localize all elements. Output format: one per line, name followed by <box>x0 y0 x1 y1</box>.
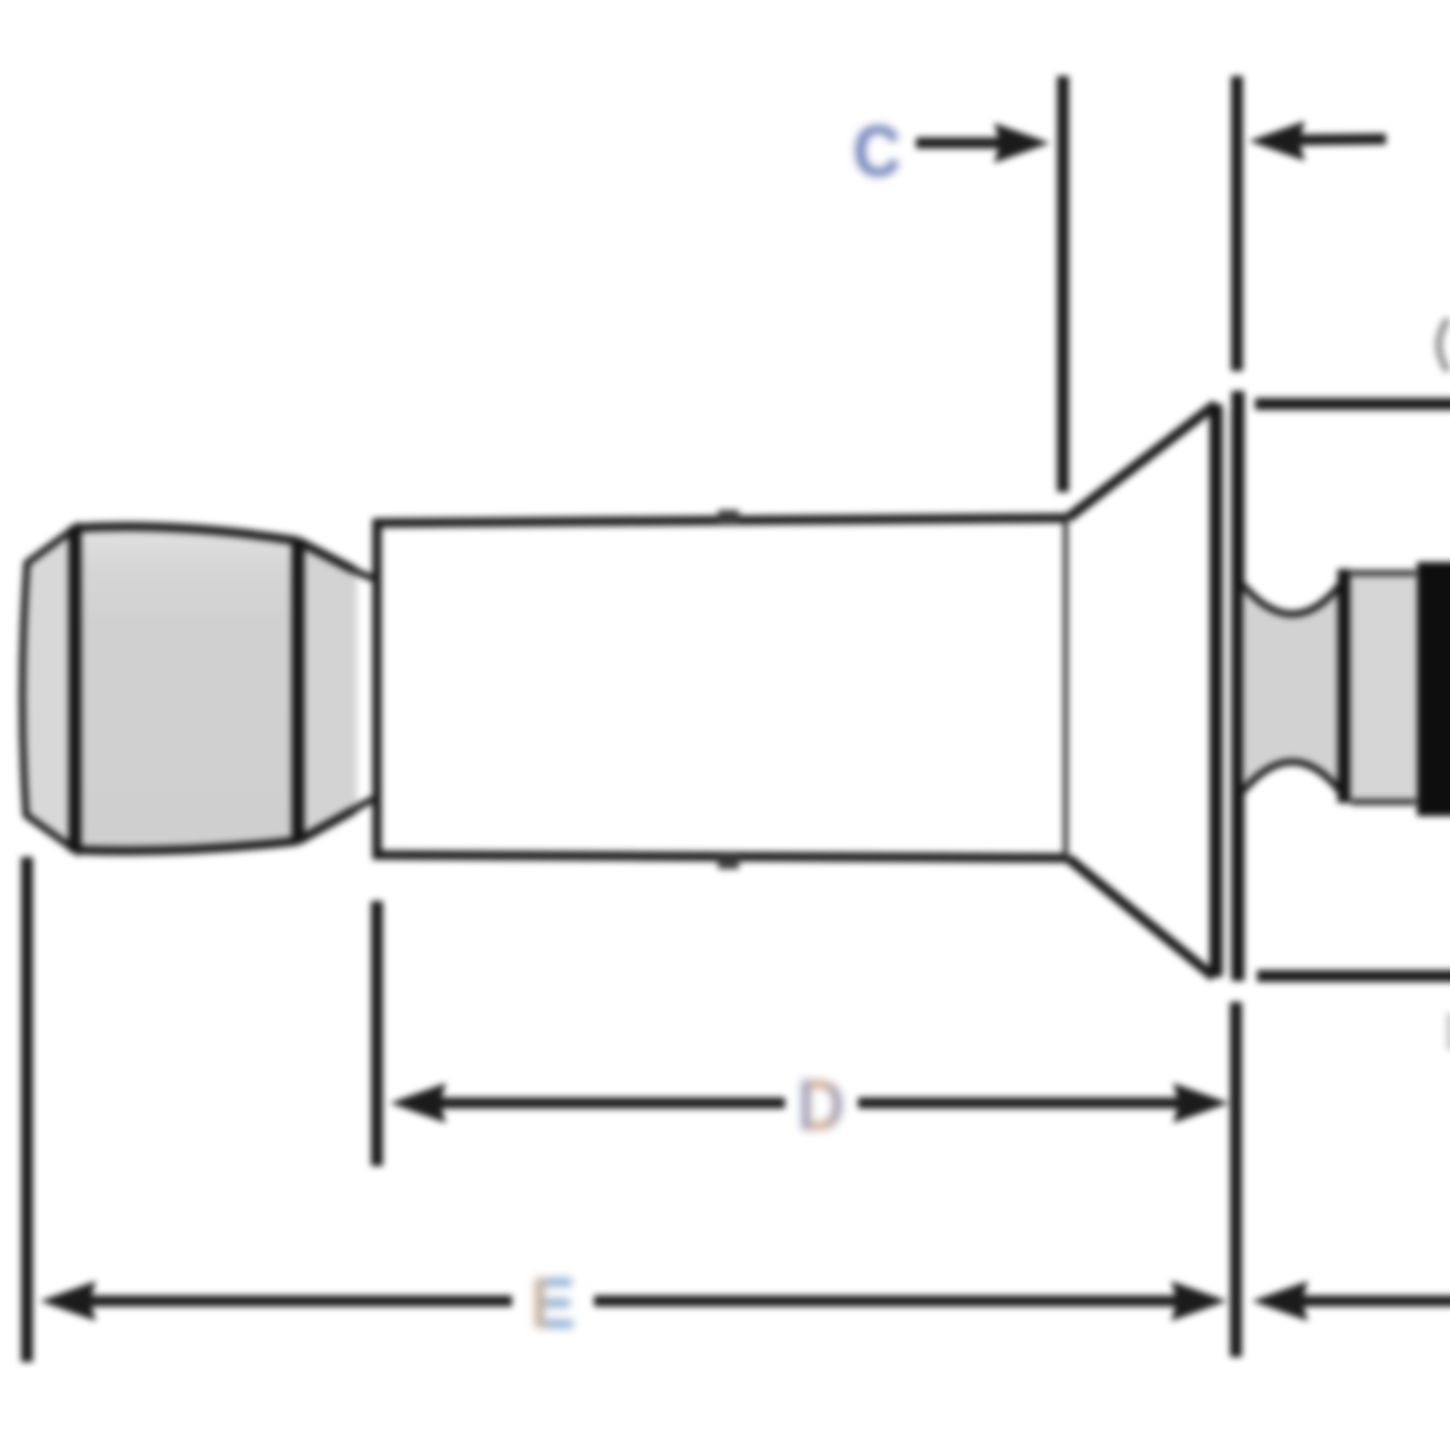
dim C arrow tail <box>916 138 1010 149</box>
dim E line left <box>82 1296 512 1307</box>
dim D line left <box>432 1098 785 1109</box>
neck top curve <box>354 570 377 579</box>
dim F arrowhead cut off <box>1252 1281 1308 1321</box>
flange gap strip <box>1221 410 1234 974</box>
dim E right arrowhead <box>1171 1281 1227 1321</box>
dim E left arrowhead <box>40 1281 96 1321</box>
head right chamfer top edge <box>298 541 354 570</box>
head diameter extension line top <box>1255 398 1450 410</box>
cut-off label top right <box>1439 319 1448 371</box>
tip knurl gray band bottom edge <box>1351 799 1416 805</box>
shank top centerline tick <box>718 510 739 523</box>
tip knurl gray band <box>1351 572 1416 806</box>
tip knurl black band <box>1417 562 1450 816</box>
flare top slant edge <box>1068 404 1216 518</box>
head right chamfer bottom edge <box>298 810 354 841</box>
tip neck bottom curve <box>1243 762 1340 791</box>
extension line E left <box>21 857 33 1362</box>
extension line right bottom <box>1230 1002 1242 1357</box>
flare bottom slant edge <box>1068 858 1214 977</box>
dim C arrowhead <box>994 123 1050 163</box>
cut-off label bottom right <box>1446 1013 1450 1050</box>
svg-text:E: E <box>530 1264 576 1344</box>
head barrel bottom outline <box>75 841 298 851</box>
dim B arrow tail <box>1292 139 1386 140</box>
svg-text:D: D <box>797 1066 845 1146</box>
flange face line <box>1232 391 1245 981</box>
head left edge line <box>69 526 82 852</box>
extension line C left <box>1057 76 1069 492</box>
extension line C right <box>1231 76 1243 371</box>
dim F arrow tail <box>1294 1296 1450 1307</box>
dim E line right <box>594 1296 1185 1307</box>
shank body <box>377 518 1068 858</box>
tip neck groove <box>1243 585 1340 791</box>
dim D line right <box>858 1098 1187 1109</box>
head left chamfer facet <box>22 528 75 850</box>
svg-text:C: C <box>853 112 901 192</box>
head diameter extension line bottom <box>1257 970 1450 982</box>
tip collar line <box>1338 569 1351 803</box>
dim B arrowhead <box>1249 121 1305 161</box>
dim D left arrowhead <box>390 1083 446 1123</box>
neck bottom curve <box>354 798 377 810</box>
tip knurl gray band top edge <box>1351 570 1416 576</box>
head right edge line <box>292 539 305 843</box>
extension line D left <box>371 901 383 1166</box>
flare right edge line <box>1210 404 1223 977</box>
dim D right arrowhead <box>1173 1083 1229 1123</box>
head right chamfer facet <box>298 541 357 841</box>
head barrel top outline <box>75 527 298 541</box>
head barrel body <box>75 527 298 851</box>
shank bottom centerline tick <box>718 856 739 869</box>
tip neck top curve <box>1243 585 1340 614</box>
conical flare body <box>1068 404 1216 977</box>
